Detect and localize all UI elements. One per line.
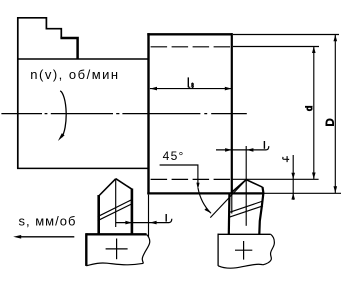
svg-text:n(v), об/мин: n(v), об/мин	[30, 67, 119, 82]
svg-text:s, мм/об: s, мм/об	[19, 214, 77, 229]
svg-text:D: D	[324, 118, 336, 126]
svg-text:d: d	[304, 106, 315, 111]
svg-text:45°: 45°	[163, 149, 185, 163]
